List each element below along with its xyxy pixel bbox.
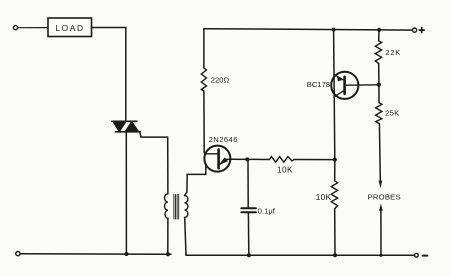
capacitor C1 0.1uF plates [241, 207, 256, 209]
bottom rail right [186, 254, 414, 256]
wire 22K to divider node [378, 64, 380, 85]
probe arrow lower (up) [379, 203, 383, 211]
UJT emitter lead with arrow [219, 159, 230, 165]
wire triac anode2 down to bottom rail [125, 132, 127, 254]
svg-text:10K: 10K [277, 165, 293, 174]
junction dot primary bottom [166, 252, 170, 256]
wire 10K to bottom rail [334, 209, 336, 256]
wire secondary top to UJT base1 [185, 164, 206, 195]
transistor Q1 circle [331, 72, 358, 99]
bottom rail left [20, 253, 171, 256]
vertical wire node down through 10K to rail [334, 160, 336, 181]
wire primary bottom to rail [167, 218, 169, 254]
wire top rail corner down through 220R to UJT [203, 29, 205, 68]
resistor 25K [378, 85, 380, 103]
svg-text:PROBES: PROBES [368, 193, 401, 202]
load box LOAD [48, 18, 92, 37]
svg-text:2N2646: 2N2646 [209, 135, 238, 144]
wire triac gate to transformer primary [140, 132, 168, 194]
terminal bottom-right minus [415, 253, 419, 257]
wire terminal to LOAD [18, 27, 48, 29]
transformer T1 secondary winding [185, 196, 188, 218]
node junction dot right [333, 158, 337, 162]
wire LOAD to corner [92, 28, 126, 122]
svg-text:220Ω: 220Ω [211, 76, 230, 85]
UJT U1 circle [204, 146, 230, 172]
wire 25K down to probe arrow [378, 124, 381, 182]
junction dot triac bottom [124, 252, 128, 256]
junction dot 10K bottom [333, 253, 337, 257]
terminal top-left input [13, 26, 17, 30]
transistor emitter diagonal with arrow [334, 74, 344, 80]
UJT base bar [217, 150, 220, 169]
triac left triangle [113, 121, 127, 132]
junction dot capacitor bottom [247, 253, 251, 257]
resistor 22K [375, 41, 381, 64]
junction dot probes bottom [379, 254, 382, 257]
resistor 10K vertical [331, 181, 337, 209]
wire rail to 22K [378, 30, 380, 41]
svg-text:BC178: BC178 [307, 80, 330, 89]
junction dot top rail at 22K [377, 28, 381, 32]
wire secondary bottom to rail corner [185, 217, 186, 255]
triac bottom bar [115, 131, 140, 133]
svg-text:22K: 22K [385, 48, 401, 57]
wire node down to capacitor [247, 159, 249, 207]
resistor 10K horizontal [269, 157, 294, 163]
transistor base lead to divider node [346, 84, 379, 86]
svg-text:0.1μf: 0.1μf [258, 207, 276, 216]
probe arrow upper (down) [379, 181, 383, 189]
wire top rail to BC178 emitter down to node [334, 30, 335, 160]
svg-text:25K: 25K [385, 108, 399, 117]
wire UJT emitter to node [230, 158, 247, 160]
transistor base bar [343, 77, 346, 94]
junction dot top rail at BC178 [332, 28, 336, 32]
wire 10K to right node [294, 159, 335, 161]
wire node to 10K horizontal [247, 158, 269, 160]
top rail [204, 29, 413, 30]
wire 220R to UJT region [203, 91, 205, 153]
svg-text:10K: 10K [316, 193, 332, 202]
transformer core [174, 195, 179, 220]
triac Q top bar [112, 120, 137, 122]
svg-text:LOAD: LOAD [55, 23, 84, 33]
transistor collector diagonal [334, 90, 344, 97]
wire lower probe to bottom rail [380, 211, 382, 255]
terminal top-right plus [412, 28, 416, 32]
transformer T1 primary winding [164, 194, 167, 219]
junction dot divider [377, 83, 381, 87]
resistor 220ohm [201, 68, 206, 91]
triac right triangle [125, 121, 139, 132]
terminal bottom-left [16, 252, 20, 256]
node junction dot emitter [245, 157, 249, 161]
UJT base2 lead [205, 153, 219, 155]
wire capacitor to bottom rail [247, 213, 249, 255]
